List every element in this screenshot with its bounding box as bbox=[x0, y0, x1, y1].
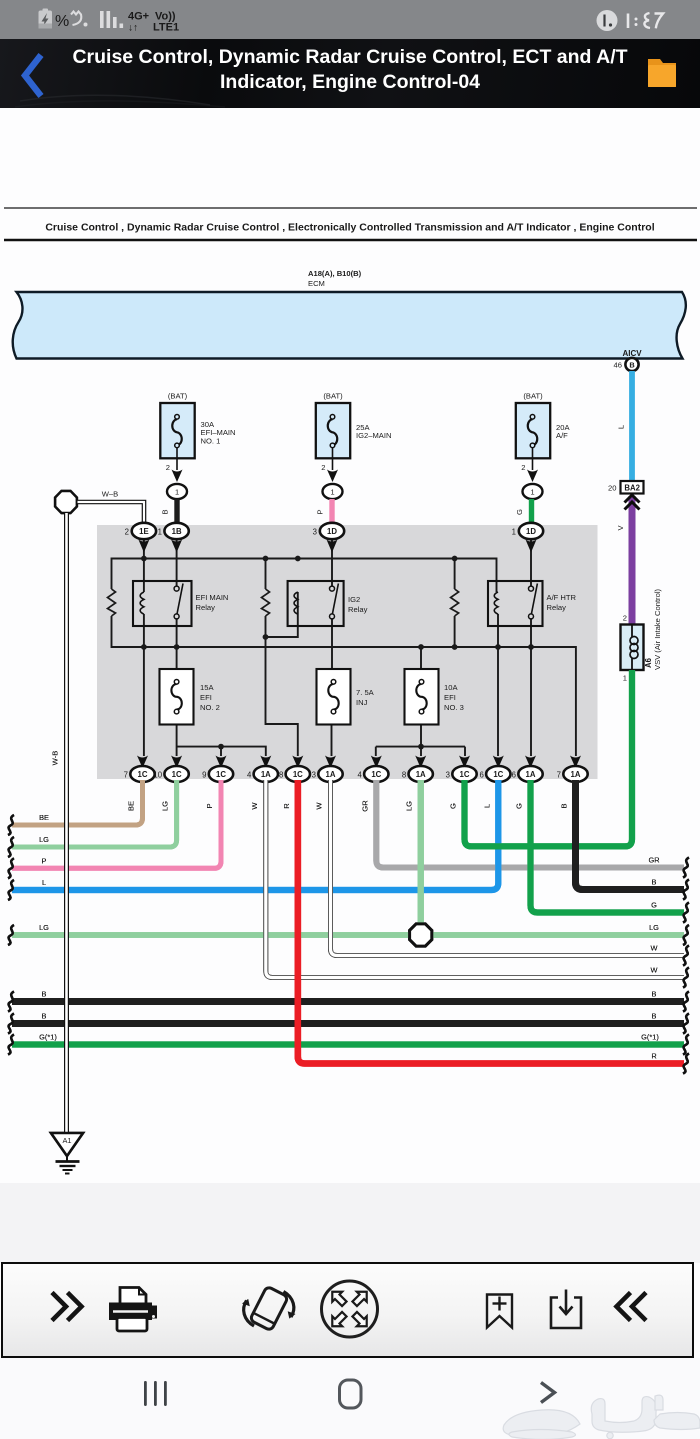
wire G(*1): full width green bbox=[12, 1041, 684, 1047]
svg-text:6: 6 bbox=[479, 771, 483, 780]
svg-text:2: 2 bbox=[521, 463, 525, 472]
svg-text:1C: 1C bbox=[493, 770, 503, 779]
wire W: pin 4-1A to right bbox=[266, 780, 684, 978]
pin B of AICV (circle terminal), pin number 46 bbox=[614, 358, 639, 371]
svg-text:8: 8 bbox=[402, 771, 406, 780]
wire colour labels on verticals bbox=[127, 800, 569, 812]
svg-text:3: 3 bbox=[312, 771, 316, 780]
svg-text:G: G bbox=[651, 901, 657, 910]
shield chevrons below BA2 bbox=[625, 495, 640, 510]
svg-text:2: 2 bbox=[321, 463, 325, 472]
svg-text:15A: 15A bbox=[200, 683, 214, 692]
svg-text:1E: 1E bbox=[139, 527, 149, 536]
connector 1C pin 8 (bottom) bbox=[279, 756, 310, 783]
svg-text:L: L bbox=[42, 878, 46, 887]
svg-text:1C: 1C bbox=[216, 770, 226, 779]
svg-text:G: G bbox=[515, 803, 524, 809]
connector 1D pin 1 (top right) bbox=[512, 523, 544, 553]
svg-text:L: L bbox=[617, 425, 626, 429]
wire P: pin 9-1C to left bbox=[12, 780, 221, 868]
svg-text:(BAT): (BAT) bbox=[323, 392, 343, 401]
wire W-B: octagon splice down to ground A1 bbox=[51, 513, 67, 1133]
wire G: pin 6-1A to right bbox=[531, 780, 685, 913]
android navigation bar bbox=[0, 1358, 700, 1439]
svg-text:B: B bbox=[652, 878, 657, 887]
wire labels right side bbox=[641, 856, 659, 1061]
svg-text:10: 10 bbox=[153, 771, 162, 780]
bottom toolbar bbox=[1, 1262, 694, 1358]
wire LG: pin 8-1A down to splice bbox=[418, 780, 424, 935]
connector 1C pin 7 (bottom) bbox=[124, 756, 155, 783]
svg-text:G: G bbox=[449, 803, 458, 809]
wire G: pin 3-1C to VSV pin 1 bbox=[465, 670, 633, 846]
ground A1 bbox=[51, 1133, 83, 1174]
svg-text:1A: 1A bbox=[416, 770, 426, 779]
wire B: pin 7-1A to right bbox=[576, 780, 685, 890]
app header bbox=[0, 39, 700, 108]
svg-text:NO. 2: NO. 2 bbox=[200, 703, 220, 712]
wire B: full width (upper) bbox=[12, 998, 684, 1005]
svg-text:B: B bbox=[42, 990, 47, 999]
svg-text:P: P bbox=[205, 803, 214, 808]
wire break marks left edge bbox=[8, 815, 14, 1055]
svg-text:%: % bbox=[55, 13, 69, 30]
wire 1E to EFI MAIN relay coil to pin 7-1C bbox=[143, 540, 145, 756]
connector 1C pin 10 (bottom) bbox=[153, 756, 188, 783]
svg-text:8: 8 bbox=[279, 771, 283, 780]
wire G: pin 3-1C to VSV pin 1 bbox=[465, 670, 633, 846]
diagram heading text bbox=[4, 208, 697, 240]
junction dots bbox=[141, 556, 534, 750]
connector 1C pin 9 (bottom) bbox=[202, 756, 233, 783]
svg-text:A18(A), B10(B): A18(A), B10(B) bbox=[308, 269, 362, 278]
wire break marks right edge bbox=[683, 858, 689, 1074]
svg-text:LTE1: LTE1 bbox=[153, 22, 179, 34]
svg-text:BE: BE bbox=[39, 813, 49, 822]
svg-text:P: P bbox=[316, 509, 325, 514]
svg-text:1: 1 bbox=[175, 487, 179, 496]
svg-text:1: 1 bbox=[530, 487, 534, 496]
svg-text:(BAT): (BAT) bbox=[523, 392, 543, 401]
svg-text:A1: A1 bbox=[62, 1136, 71, 1145]
svg-text:1C: 1C bbox=[293, 770, 303, 779]
wire W-B: octagon splice down to ground A1 bbox=[51, 513, 67, 1133]
svg-text:INJ: INJ bbox=[356, 698, 368, 707]
wire LG: pin 8-1A down to splice bbox=[418, 780, 424, 935]
resistor (EFI MAIN relay) bbox=[108, 589, 116, 616]
svg-text:(BAT): (BAT) bbox=[168, 392, 188, 401]
wire G: pin 6-1A to right bbox=[531, 780, 685, 913]
VSV (Air Intake Control) A6 solenoid valve bbox=[621, 589, 663, 683]
connector 1C pin 3 (bottom) bbox=[446, 756, 477, 783]
svg-text:1A: 1A bbox=[526, 770, 536, 779]
svg-text:1C: 1C bbox=[138, 770, 148, 779]
node AICV (label inside band) bbox=[622, 349, 642, 358]
fuse 25A IG2-MAIN (BAT) bbox=[316, 392, 392, 500]
svg-text:1: 1 bbox=[158, 528, 162, 537]
connector 1A pin 7 (bottom) bbox=[557, 756, 588, 783]
svg-text:46: 46 bbox=[614, 361, 622, 370]
svg-text:W: W bbox=[651, 944, 658, 953]
svg-text:2: 2 bbox=[166, 463, 170, 472]
svg-text:9: 9 bbox=[202, 771, 206, 780]
wire labels right side bbox=[641, 856, 659, 1061]
svg-text:4G+: 4G+ bbox=[128, 11, 149, 23]
svg-text:EFI: EFI bbox=[200, 693, 212, 702]
resistor (A/F HTR relay) bbox=[451, 589, 459, 616]
wire P (pink) fuse2 to 1D bbox=[316, 499, 333, 524]
wire R: pin 8-1C to right bbox=[298, 780, 684, 1064]
svg-text:L: L bbox=[482, 804, 491, 808]
wire 1B to EFI MAIN relay switch to 15A fuse to 10-1C bbox=[176, 540, 178, 756]
wire G (green) fuse3 to 1D bbox=[515, 499, 532, 524]
svg-text:EFI MAIN: EFI MAIN bbox=[196, 593, 229, 602]
wire break marks right edge bbox=[683, 858, 689, 1074]
svg-text:B: B bbox=[161, 509, 170, 514]
svg-text:B: B bbox=[560, 803, 569, 808]
svg-text:IG2–MAIN: IG2–MAIN bbox=[356, 431, 391, 440]
wire labels left side bbox=[39, 813, 57, 1042]
wire W: pin 4-1A to right bbox=[266, 780, 684, 978]
svg-text:V: V bbox=[616, 525, 625, 531]
svg-text:1A: 1A bbox=[261, 770, 271, 779]
wire break marks left edge bbox=[8, 815, 14, 1055]
status bar bbox=[0, 0, 700, 39]
wire R: pin 8-1C to right bbox=[298, 780, 684, 1064]
svg-text:20: 20 bbox=[608, 484, 616, 493]
splice octagon on LG wire bbox=[410, 924, 432, 946]
connector 1A pin 3 (bottom) bbox=[312, 756, 343, 783]
fuse 15A EFI NO.2 bbox=[160, 669, 220, 725]
fuse 7.5A INJ bbox=[317, 669, 375, 725]
connector 1A pin 6 (bottom) bbox=[512, 756, 543, 783]
connector 1C pin 4 (bottom) bbox=[357, 756, 388, 783]
svg-text:NO. 1: NO. 1 bbox=[201, 436, 221, 445]
relay IG2: box, coil, switch bbox=[288, 581, 368, 626]
junction box BA2, pin 20 bbox=[608, 481, 643, 494]
svg-text:2: 2 bbox=[125, 528, 129, 537]
svg-text:GR: GR bbox=[648, 856, 659, 865]
wire P: pin 9-1C to left bbox=[12, 780, 221, 868]
svg-text:↓↑: ↓↑ bbox=[128, 23, 138, 34]
svg-text:1A: 1A bbox=[326, 770, 336, 779]
svg-text:A6: A6 bbox=[644, 657, 653, 668]
svg-text:1C: 1C bbox=[460, 770, 470, 779]
svg-text:P: P bbox=[42, 856, 47, 865]
svg-text:10A: 10A bbox=[444, 683, 458, 692]
connector 1E pin 2 (top) bbox=[125, 523, 156, 553]
fuse 30A EFI-MAIN NO.1 (BAT) bbox=[160, 392, 235, 500]
svg-text:NO. 3: NO. 3 bbox=[444, 703, 464, 712]
wire B: full width (lower) bbox=[12, 1020, 684, 1027]
wire B: pin 7-1A to right bbox=[576, 780, 685, 890]
wire L (cyan) AICV to BA2 bbox=[617, 371, 633, 482]
svg-text:LG: LG bbox=[405, 801, 414, 811]
wire L (blue): pin 6-1C to left bbox=[12, 780, 498, 890]
svg-text:1D: 1D bbox=[526, 527, 536, 536]
connector 1C pin 6 (bottom) bbox=[479, 756, 510, 783]
wire LG: pin 10-1C to left bbox=[12, 780, 177, 847]
svg-text:7: 7 bbox=[557, 771, 561, 780]
svg-text:7. 5A: 7. 5A bbox=[356, 688, 375, 697]
svg-text:G(*1): G(*1) bbox=[641, 1033, 659, 1042]
15A fuse output wire to 9-1C and 4-1A bbox=[177, 747, 266, 756]
svg-text:1B: 1B bbox=[172, 527, 182, 536]
svg-text:1: 1 bbox=[623, 674, 627, 683]
fuse 10A EFI NO.3 bbox=[405, 669, 464, 725]
wire labels left side bbox=[39, 813, 57, 1042]
svg-text:2: 2 bbox=[623, 614, 627, 623]
wire B: full width (upper) bbox=[12, 998, 684, 1005]
ground splice octagon (W-B source) bbox=[55, 490, 118, 514]
wire 1D to IG2 relay switch to 7.5A fuse to 3-1A bbox=[331, 540, 334, 756]
wire B (black) fuse1 to 1B bbox=[161, 499, 178, 524]
svg-text:6: 6 bbox=[512, 771, 516, 780]
svg-text:1D: 1D bbox=[327, 527, 337, 536]
connector 1B pin 1 (top) bbox=[158, 523, 189, 553]
svg-text:LG: LG bbox=[161, 801, 170, 811]
A/F HTR relay coil wire to 6-1C, resistor taps bbox=[455, 559, 498, 757]
svg-text:ECM: ECM bbox=[308, 279, 325, 288]
svg-text:B: B bbox=[42, 1012, 47, 1021]
svg-text:7: 7 bbox=[124, 771, 128, 780]
ECM connector label A18(A), B10(B) bbox=[308, 269, 362, 288]
svg-text:EFI: EFI bbox=[444, 693, 456, 702]
wire V (violet) BA2 to VSV pin 2 bbox=[616, 496, 632, 625]
wire BE: pin 7-1C to left bbox=[12, 780, 143, 825]
wire W-B octagon to 1E bbox=[78, 502, 145, 522]
10A fuse wires to 4-1C, 8-1A, 3-1C bbox=[376, 647, 465, 756]
wire colour labels on verticals bbox=[127, 800, 569, 812]
light gray strip under diagram sheet bbox=[0, 1183, 700, 1263]
svg-text:1: 1 bbox=[330, 487, 334, 496]
svg-text:4: 4 bbox=[357, 771, 362, 780]
svg-text:W: W bbox=[651, 966, 658, 975]
connector 1D pin 3 (top) bbox=[313, 523, 345, 553]
svg-text:3: 3 bbox=[313, 528, 317, 537]
svg-text:W–B: W–B bbox=[102, 490, 118, 499]
svg-text:Relay: Relay bbox=[547, 603, 567, 612]
top bus wire inside relay block bbox=[112, 559, 497, 593]
svg-text:LG: LG bbox=[649, 923, 659, 932]
relay EFI MAIN: box, coil, switch bbox=[133, 581, 228, 626]
svg-text:Relay: Relay bbox=[348, 605, 368, 614]
svg-text:W-B: W-B bbox=[51, 751, 60, 766]
wire W: pin 3-1A to right bbox=[331, 780, 685, 956]
svg-text:4: 4 bbox=[247, 771, 252, 780]
svg-text:1C: 1C bbox=[172, 770, 182, 779]
svg-text:B: B bbox=[629, 361, 634, 370]
svg-text:R: R bbox=[282, 803, 291, 809]
ground A1 bbox=[51, 1133, 83, 1174]
connector 1A pin 4 (bottom) bbox=[247, 756, 278, 783]
svg-text:G(*1): G(*1) bbox=[39, 1033, 57, 1042]
svg-text:IG2: IG2 bbox=[348, 595, 360, 604]
relay block (junction block, gray) bbox=[97, 525, 598, 779]
fuse 20A A/F (BAT) bbox=[516, 392, 571, 500]
svg-text:W: W bbox=[250, 802, 259, 810]
resistor (IG2 relay) bbox=[262, 589, 270, 616]
wire GR: pin 4-1C to right bbox=[376, 780, 684, 868]
svg-text:A/F HTR: A/F HTR bbox=[547, 593, 577, 602]
ECM connector band bbox=[13, 292, 686, 359]
svg-text:A/F: A/F bbox=[556, 431, 568, 440]
svg-text:Cruise Control , Dynamic Radar: Cruise Control , Dynamic Radar Cruise Co… bbox=[45, 222, 654, 234]
wire GR: pin 4-1C to right bbox=[376, 780, 684, 868]
wire 1D to A/F HTR relay switch to 6-1A bbox=[530, 540, 532, 756]
splice octagon on LG wire bbox=[410, 924, 432, 946]
wire LG long: left to right through splice bbox=[12, 932, 684, 938]
wire G(*1): full width green bbox=[12, 1041, 684, 1047]
svg-text:R: R bbox=[651, 1052, 656, 1061]
connector 1A pin 8 (bottom) bbox=[402, 756, 433, 783]
svg-text:1A: 1A bbox=[571, 770, 581, 779]
wire LG long: left to right through splice bbox=[12, 932, 684, 938]
svg-text:3: 3 bbox=[446, 771, 450, 780]
svg-text:LG: LG bbox=[39, 835, 49, 844]
svg-text:BE: BE bbox=[127, 801, 136, 811]
svg-text:1: 1 bbox=[512, 528, 516, 537]
svg-text:B: B bbox=[652, 1012, 657, 1021]
svg-text:BA2: BA2 bbox=[624, 484, 640, 493]
relay A/F HTR: box, coil, switch bbox=[488, 581, 577, 626]
svg-text:VSV (Air Intake Control): VSV (Air Intake Control) bbox=[653, 589, 662, 670]
wire LG: pin 10-1C to left bbox=[12, 780, 177, 847]
svg-text:G: G bbox=[515, 509, 524, 515]
svg-text:1C: 1C bbox=[371, 770, 381, 779]
svg-text:W: W bbox=[315, 802, 324, 810]
svg-text:B: B bbox=[652, 990, 657, 999]
svg-text:Relay: Relay bbox=[196, 603, 216, 612]
wire L (blue): pin 6-1C to left bbox=[12, 780, 498, 890]
wire BE: pin 7-1C to left bbox=[12, 780, 143, 825]
wire B: full width (lower) bbox=[12, 1020, 684, 1027]
bottom bus wire inside relay block bbox=[112, 616, 576, 756]
wire W: pin 3-1A to right bbox=[331, 780, 685, 956]
svg-text:LG: LG bbox=[39, 923, 49, 932]
svg-text:GR: GR bbox=[360, 800, 369, 812]
IG2 relay coil return wire to pin 8-1C bbox=[266, 559, 298, 757]
